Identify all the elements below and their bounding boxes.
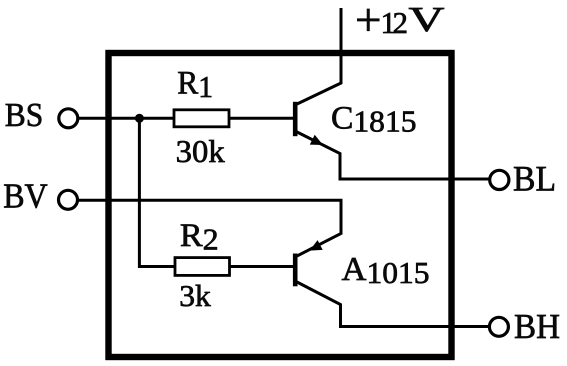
svg-text:30k: 30k [176,134,225,169]
svg-text:BV: BV [3,177,48,216]
svg-text:R1: R1 [177,66,213,105]
svg-text:+: + [355,0,382,46]
svg-text:BS: BS [5,97,44,134]
svg-text:BL: BL [513,159,556,199]
svg-text:BH: BH [514,307,560,346]
svg-text:V: V [409,0,445,39]
svg-text:R2: R2 [180,218,219,257]
svg-text:2: 2 [393,5,409,40]
svg-text:C1815: C1815 [331,101,417,139]
svg-text:3k: 3k [179,279,211,313]
svg-text:A1015: A1015 [342,251,430,290]
